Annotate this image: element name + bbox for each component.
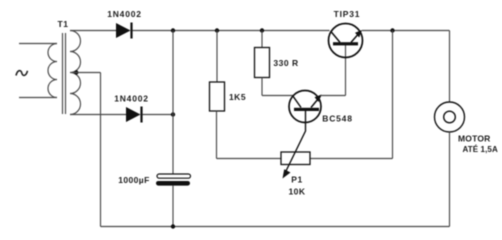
wire center tap drop to bottom rail: [100, 73, 102, 227]
node bottom rail cap junction: [171, 224, 175, 228]
svg-text:BC548: BC548: [322, 114, 352, 124]
resistor 330R: [255, 48, 270, 78]
svg-text:330 R: 330 R: [273, 58, 298, 68]
wire cap column lower: [172, 186, 174, 227]
wire diode D2 to cap column: [143, 114, 174, 116]
svg-text:P1: P1: [291, 175, 302, 185]
svg-text:1N4002: 1N4002: [107, 9, 142, 19]
wire motor bottom lead: [449, 132, 451, 227]
wire cap column upper: [172, 31, 174, 175]
wire pot P1 right lead: [310, 158, 393, 160]
motor M1: [435, 102, 465, 132]
wire motor top lead: [449, 31, 451, 103]
transistor Q2 TIP31: [329, 24, 363, 58]
svg-text:1000µF: 1000µF: [118, 175, 149, 185]
wire 330R bottom lead: [261, 78, 263, 96]
wire 1K5 bottom lead: [216, 111, 218, 159]
wire BC548 emitter to TIP31 base: [321, 95, 346, 97]
wire secondary bottom lead: [70, 114, 126, 116]
node top rail 1K5 branch: [215, 28, 219, 32]
node top rail 330R branch: [260, 28, 264, 32]
transistor Q1 BC548: [289, 91, 322, 123]
wire 1K5 top lead: [216, 31, 218, 83]
svg-text:10K: 10K: [288, 187, 305, 197]
wire bottom rail: [101, 226, 450, 228]
node D2 junction: [171, 112, 175, 116]
wire feedback drop: [392, 31, 394, 159]
transformer primary winding: [48, 44, 57, 98]
wire primary top lead: [19, 43, 57, 45]
wire center tap to right: [72, 72, 101, 74]
wire top rail left: [70, 30, 116, 32]
resistor 1K5: [210, 82, 225, 111]
transformer T1: [19, 31, 81, 115]
wire 1K5 to pot P1 left: [217, 158, 282, 160]
svg-text:1N4002: 1N4002: [114, 94, 149, 104]
svg-text:TIP31: TIP31: [334, 9, 361, 19]
svg-text:ATÉ 1,5A: ATÉ 1,5A: [463, 145, 498, 154]
wire primary bottom lead: [19, 97, 57, 99]
node emitter feedback junction: [390, 28, 394, 32]
diode D2 1N4002: [126, 107, 142, 123]
svg-text:T1: T1: [58, 19, 69, 29]
transformer secondary winding: [70, 31, 81, 115]
node top rail cap branch: [171, 28, 175, 32]
diode D1 1N4002: [116, 23, 132, 39]
wire top rail middle: [133, 30, 330, 32]
transformer core: [63, 33, 66, 114]
wire 330R top lead: [261, 31, 263, 48]
capacitor C1 1000uF: [156, 174, 191, 186]
wire TIP31 base lead: [345, 45, 347, 96]
svg-text:MOTOR: MOTOR: [458, 134, 490, 144]
potentiometer P1: [281, 111, 310, 179]
wire TIP31 emitter to motor corner: [362, 30, 450, 32]
node center tap: [74, 70, 78, 74]
svg-text:1K5: 1K5: [229, 92, 246, 102]
wire 330R to BC548 collector: [262, 95, 293, 97]
AC source symbol ~: [16, 71, 28, 76]
